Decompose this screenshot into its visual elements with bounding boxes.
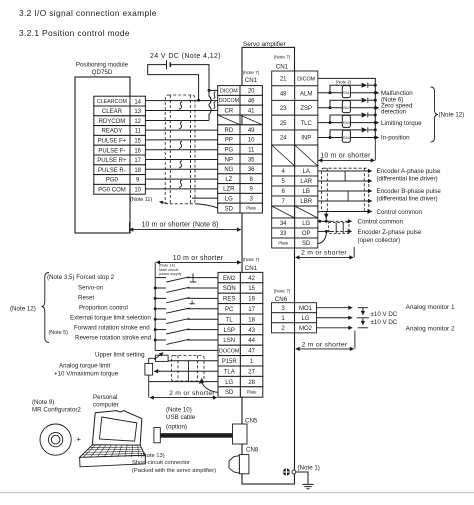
svg-text:EM2: EM2: [223, 276, 236, 282]
CN1 lower pin LG 28: [218, 376, 240, 386]
wire PG0 COM to LZR: [145, 188, 217, 190]
module pin PG0 9: [94, 175, 130, 185]
wire PULSE R+ to NP: [145, 159, 217, 161]
svg-text:PULSE F-: PULSE F-: [98, 148, 125, 154]
junction dots ZSP: [329, 106, 332, 109]
junction battery minus / DOCOM: [197, 99, 200, 102]
USB plug: [154, 428, 160, 443]
svg-text:10: 10: [134, 187, 141, 193]
svg-text:LSN: LSN: [223, 338, 235, 344]
svg-text:(Note 7): (Note 7): [274, 289, 291, 294]
svg-text:(Note 11): (Note 11): [130, 197, 152, 203]
module pin RDYCOM 12: [94, 116, 130, 126]
CN1 right: skipped pins (diagonal): [272, 206, 295, 218]
twisted pair squiggle: [179, 102, 182, 110]
svg-text:PULSE R+: PULSE R+: [97, 158, 127, 164]
flyback diode branch INP: [330, 130, 361, 138]
svg-text:35: 35: [248, 157, 255, 163]
wire to DICOM cell: [209, 89, 218, 91]
module pin PG0 COM 10: [94, 184, 130, 194]
laptop icon: [92, 411, 142, 446]
wire CN6 row 3: [317, 327, 353, 329]
svg-text:13: 13: [134, 109, 141, 115]
CN1 lower pin LSN 44: [218, 335, 240, 345]
svg-text:SD: SD: [225, 390, 234, 396]
svg-text:Analog monitor 1: Analog monitor 1: [406, 304, 456, 311]
flyback diode branch TLC: [330, 115, 361, 123]
svg-text:Servo amplifier: Servo amplifier: [243, 41, 286, 48]
pair bar P15R/TLA: [188, 361, 190, 382]
svg-text:16: 16: [134, 148, 141, 154]
svg-text:External torque limit selectio: External torque limit selection: [70, 314, 151, 321]
module pin PULSE R- 18: [94, 165, 130, 175]
wire shield to SD plate: [195, 204, 218, 208]
positioning module QD75D box: [75, 77, 130, 233]
vertical pot feed: [148, 358, 150, 381]
svg-text:LG: LG: [225, 380, 233, 386]
svg-text:DICOM: DICOM: [220, 88, 238, 94]
earth ground symbol: [302, 483, 313, 485]
svg-text:LZ: LZ: [225, 177, 232, 183]
terminal circle on box edge: [292, 470, 296, 474]
wire CLEAR to CR: [145, 110, 217, 112]
CN1 lower pin PC 17: [218, 304, 240, 314]
svg-text:RA4: RA4: [343, 136, 350, 140]
CN1 lower pin P15R 1: [218, 356, 240, 366]
svg-text:Encoder Z-phase pulse: Encoder Z-phase pulse: [358, 229, 423, 236]
svg-text:±10 V DC: ±10 V DC: [371, 319, 398, 326]
svg-text:LG: LG: [302, 221, 310, 227]
svg-text:10: 10: [248, 138, 255, 144]
twisted pair squiggle: [179, 122, 182, 129]
svg-text:27: 27: [248, 369, 255, 375]
TLA wiper arrow: [154, 370, 160, 372]
svg-text:+: +: [77, 435, 82, 444]
wire encoder LBR: [318, 200, 372, 202]
CN1 right pin 4 LA: [272, 166, 295, 176]
junction dots INP: [329, 136, 332, 139]
CN1 middle: skipped pins (diagonal): [218, 115, 240, 125]
wire READY to RD: [145, 129, 217, 131]
svg-text:CN5: CN5: [245, 417, 258, 424]
junction bus/SON: [154, 287, 157, 290]
svg-text:power supply: power supply: [159, 272, 181, 276]
CN1 right pin 21 DICOM: [272, 71, 295, 86]
output arrow INP: [375, 137, 378, 139]
pair bar LA/LAR: [344, 171, 346, 181]
svg-text:Proportion control: Proportion control: [79, 304, 128, 311]
svg-text:10 m or shorter: 10 m or shorter: [173, 255, 224, 262]
svg-text:43: 43: [248, 328, 255, 334]
svg-text:PP: PP: [225, 138, 233, 144]
svg-text:RDYCOM: RDYCOM: [99, 119, 126, 125]
svg-text:+10 V/maximum torque: +10 V/maximum torque: [54, 371, 119, 378]
svg-text:34: 34: [280, 221, 287, 227]
wire CN6 row 1: [317, 307, 353, 309]
CN1 lower pin EM2 42: [218, 272, 240, 282]
svg-text:25: 25: [280, 121, 287, 127]
servo box edge visible through middle diag cell: [241, 116, 243, 125]
wire TLA: [159, 370, 219, 372]
twisted pair squiggle DOCOM/CR: [214, 102, 216, 109]
CN1 right pin 6 LB: [272, 186, 295, 196]
CN6 pin 1 LG: [272, 313, 295, 323]
svg-text:19: 19: [248, 297, 255, 303]
wire DICOM(21) to +24V bus: [318, 78, 376, 137]
CN5 connector: [233, 424, 248, 444]
USB cable (thick): [160, 433, 232, 438]
diode TLC: [362, 112, 368, 117]
svg-text:(Note 7): (Note 7): [274, 55, 291, 60]
wire LG(34) control common: [318, 220, 331, 222]
svg-text:23: 23: [280, 106, 287, 112]
CN1 lower pin SD Plate: [218, 387, 240, 397]
wire P15R: [168, 360, 218, 362]
svg-text:(Note 7): (Note 7): [243, 70, 260, 75]
svg-text:SD: SD: [302, 241, 311, 247]
junction bus/RES: [154, 297, 157, 300]
CN1 middle pin DICOM 20: [218, 86, 240, 96]
svg-text:Plate: Plate: [246, 206, 257, 211]
switch for TL: [155, 318, 166, 320]
svg-text:2 m or shorter: 2 m or shorter: [169, 390, 215, 397]
svg-text:3.2.1 Position control mode: 3.2.1 Position control mode: [19, 28, 130, 38]
svg-text:PC: PC: [225, 307, 234, 313]
svg-text:PULSE F+: PULSE F+: [98, 138, 127, 144]
CN6 pin 2 MO2: [272, 323, 295, 333]
svg-text:DOCOM: DOCOM: [219, 348, 239, 354]
svg-text:(Note 12): (Note 12): [10, 305, 36, 312]
junction bus/LSP: [154, 328, 157, 331]
CN1 lower pin DOCOM 47: [218, 345, 240, 355]
junction dots TLC: [329, 121, 332, 124]
CN1 middle pin CR 41: [218, 105, 240, 115]
CN1 middle pin PG 11: [218, 144, 240, 154]
svg-text:LB: LB: [303, 189, 310, 195]
ground wire: [296, 472, 308, 484]
CN6 pin 3 MO1: [272, 303, 295, 313]
shield: Z-phase small dashed box: [329, 223, 349, 234]
switch for RES: [155, 297, 166, 299]
svg-text:48: 48: [280, 91, 287, 97]
CN1 right pin 23 ZSP: [272, 100, 295, 115]
svg-text:Analog monitor 2: Analog monitor 2: [406, 325, 456, 332]
twisted pair squiggle: [179, 180, 182, 188]
flyback diode branch ZSP: [330, 100, 361, 108]
wire RDYCOM to +24V net: [145, 120, 209, 122]
svg-text:CLEAR: CLEAR: [102, 109, 123, 115]
svg-text:Control common: Control common: [358, 219, 404, 226]
svg-text:15: 15: [134, 138, 141, 144]
wire vertical RDYCOM to DICOM net (with hops): [209, 90, 211, 120]
CN8 connector: [239, 455, 249, 474]
wire LG(28): [149, 381, 218, 383]
module pin READY 11: [94, 126, 130, 136]
svg-text:(Note 1): (Note 1): [298, 464, 320, 471]
diode INP: [362, 127, 368, 132]
svg-text:RA1: RA1: [343, 91, 350, 95]
shield drop to LG(34): [325, 212, 327, 222]
wire PULSE R- to NG: [145, 168, 217, 170]
svg-text:21: 21: [280, 77, 287, 83]
svg-text:(Packed with the servo amplifi: (Packed with the servo amplifier): [132, 468, 216, 474]
wire encoder LAR: [318, 180, 372, 182]
svg-text:42: 42: [248, 276, 255, 282]
wire encoder LA: [318, 170, 372, 172]
svg-text:READY: READY: [102, 129, 123, 135]
wire CLEARCOM to DOCOM: [145, 100, 217, 102]
CN1 lower pin LSP 43: [218, 324, 240, 334]
output arrow TLC: [375, 122, 378, 124]
CN8 short-circuit plug: [229, 456, 239, 474]
CN1 lower pin TL 18: [218, 314, 240, 324]
CN1 right pin 25 TLC: [272, 115, 295, 130]
svg-text:RA2: RA2: [343, 106, 350, 110]
svg-text:(Note 2): (Note 2): [336, 80, 352, 85]
svg-text:SD: SD: [225, 206, 234, 212]
svg-text:Short-circuit connector: Short-circuit connector: [132, 460, 190, 466]
svg-text:Encoder A-phase pulse: Encoder A-phase pulse: [377, 168, 442, 175]
shield: analog cable dashed box: [172, 355, 205, 381]
junction battery plus / DICOM: [208, 89, 211, 92]
svg-text:(Note 10): (Note 10): [166, 407, 192, 414]
svg-text:INP: INP: [301, 136, 311, 142]
pair bar LB/LBR: [347, 191, 349, 201]
battery 24VDC: [166, 60, 168, 69]
svg-text:P15R: P15R: [222, 359, 238, 365]
brace (Note 12) left: [42, 273, 50, 343]
wire CN6 row 2: [317, 317, 353, 319]
svg-text:(Note 9): (Note 9): [32, 399, 54, 406]
svg-text:(differential line driver): (differential line driver): [377, 176, 438, 183]
svg-text:Upper limit setting: Upper limit setting: [95, 352, 145, 359]
svg-text:12: 12: [134, 119, 141, 125]
svg-text:TL: TL: [226, 317, 234, 323]
svg-text:10 m or shorter: 10 m or shorter: [320, 152, 371, 159]
relay coil RA1 for ALM: [342, 86, 350, 98]
brace (Note 12) right: [431, 87, 439, 142]
svg-text:44: 44: [248, 338, 255, 344]
svg-text:TLA: TLA: [224, 369, 235, 375]
svg-text:11: 11: [248, 147, 255, 153]
potentiometer P15R: [156, 355, 169, 361]
svg-text:PG: PG: [225, 147, 234, 153]
page footer rule: [0, 492, 474, 493]
svg-text:RA3: RA3: [343, 121, 350, 125]
wire battery minus: [148, 75, 199, 101]
analog meter symbols: [358, 307, 368, 309]
svg-text:11: 11: [135, 129, 142, 135]
svg-text:computer: computer: [93, 401, 119, 408]
svg-text:2 m or shorter: 2 m or shorter: [301, 249, 347, 256]
svg-text:Analog torque limit: Analog torque limit: [59, 362, 111, 369]
CN1 lower pin RES 19: [218, 293, 240, 303]
svg-text:(Note 3,5) Forced stop 2: (Note 3,5) Forced stop 2: [47, 274, 115, 281]
wire output INP: [318, 137, 343, 139]
protective earth terminal: [283, 469, 289, 475]
svg-text:ZSP: ZSP: [300, 106, 312, 112]
CN1 right pin Plate SD: [272, 238, 295, 248]
diode ZSP: [362, 98, 368, 103]
svg-text:24 V DC (Note 4,12): 24 V DC (Note 4,12): [150, 53, 221, 60]
svg-text:(differential line driver): (differential line driver): [377, 196, 438, 203]
svg-text:(Note 13): (Note 13): [141, 453, 165, 459]
svg-text:10 m or shorter (Note 8): 10 m or shorter (Note 8): [142, 222, 219, 229]
svg-text:RES: RES: [223, 297, 235, 303]
svg-text:MO2: MO2: [299, 326, 313, 332]
svg-text:TLC: TLC: [301, 121, 313, 127]
CN1 middle pin NG 36: [218, 164, 240, 174]
relay coil RA4 for INP: [342, 130, 350, 142]
twisted pair squiggle DICOM/DOCOM: [214, 92, 216, 99]
diode ALM: [362, 83, 368, 88]
shield: module cable dashed box: [165, 95, 195, 204]
CN1 right pin 24 INP: [272, 130, 295, 145]
svg-text:detection: detection: [381, 109, 407, 116]
svg-text:CLEARCOM: CLEARCOM: [97, 99, 127, 105]
switch for PC: [155, 308, 166, 310]
svg-text:LZR: LZR: [223, 187, 235, 193]
svg-text:PG0: PG0: [106, 178, 119, 184]
wire output TLC: [318, 122, 343, 124]
svg-text:47: 47: [248, 349, 255, 355]
wire shield to LG: [192, 197, 218, 199]
svg-text:MO1: MO1: [299, 306, 313, 312]
wire SD plate (analog shield): [202, 382, 219, 392]
svg-text:LSP: LSP: [224, 328, 235, 334]
input common bus: [154, 262, 156, 350]
potentiometer TLA (vertical): [145, 364, 153, 376]
CN1 middle pin DOCOM 46: [218, 95, 240, 105]
flyback diode branch ALM: [330, 85, 361, 93]
wire battery plus to DICOM: [148, 65, 167, 75]
CD-ROM icon: [40, 424, 71, 455]
CN1 middle pin RD 49: [218, 125, 240, 135]
svg-text:In-position: In-position: [381, 135, 410, 142]
twisted pair squiggle: [179, 141, 182, 148]
svg-text:CN1: CN1: [245, 77, 258, 84]
CN1 middle pin PP 10: [218, 135, 240, 145]
wire PULSE F+ to PP: [145, 139, 217, 141]
servo amplifier box: [242, 47, 295, 484]
svg-text:CN1: CN1: [276, 64, 289, 71]
svg-text:Reset: Reset: [78, 294, 94, 301]
wire PULSE F- to PG: [145, 149, 217, 151]
svg-text:DICOM: DICOM: [297, 76, 315, 82]
svg-text:Reverse rotation stroke end: Reverse rotation stroke end: [75, 335, 152, 342]
svg-text:MR Configurator2: MR Configurator2: [32, 406, 81, 413]
svg-text:15: 15: [248, 286, 255, 292]
svg-text:(open collector): (open collector): [358, 237, 401, 244]
svg-text:Plate: Plate: [247, 390, 258, 395]
svg-text:USB cable: USB cable: [166, 414, 196, 421]
switch for LSP: [155, 329, 166, 331]
junction bus/TL: [154, 318, 157, 321]
CN1 right pin 5 LAR: [272, 176, 295, 186]
CN1 middle pin LZR 9: [218, 184, 240, 194]
module pin PULSE F+ 15: [94, 135, 130, 145]
wire DOCOM(47): [155, 349, 218, 351]
junction dots ALM: [329, 91, 332, 94]
CN1 middle pin LG 3: [218, 193, 240, 203]
svg-text:NP: NP: [225, 157, 233, 163]
svg-text:PULSE R-: PULSE R-: [98, 168, 126, 174]
svg-text:Positioning module: Positioning module: [76, 62, 129, 69]
svg-text:(Note 5): (Note 5): [49, 330, 69, 336]
wire control common (shield): [318, 211, 372, 214]
laptop keys hatch: [83, 445, 95, 457]
EM2 NC contact marks: [192, 273, 194, 278]
svg-text:Servo-on: Servo-on: [78, 285, 104, 292]
CN1 right pin 48 ALM: [272, 86, 295, 101]
switch for SON: [155, 287, 166, 289]
CN1 right pin 7 LBR: [272, 196, 295, 206]
relay coil RA3 for TLC: [342, 115, 350, 127]
svg-text:Control common: Control common: [377, 209, 423, 216]
CN1 lower pin SON 15: [218, 283, 240, 293]
svg-text:Personal: Personal: [93, 394, 117, 401]
module pin PULSE F- 16: [94, 145, 130, 155]
CN1 middle pin LZ 8: [218, 174, 240, 184]
module pin CLEARCOM 14: [94, 96, 130, 106]
svg-text:(option): (option): [166, 424, 187, 431]
shield: encoder cable dashed box: [322, 168, 369, 211]
svg-text:QD75D: QD75D: [92, 69, 113, 76]
CN1 right: skipped pins (diagonal): [272, 145, 295, 166]
svg-text:41: 41: [248, 108, 255, 114]
svg-text:Encoder B-phase pulse: Encoder B-phase pulse: [377, 188, 442, 195]
switch for LSN: [155, 339, 166, 341]
svg-text:PG0 COM: PG0 COM: [98, 187, 126, 193]
svg-text:14: 14: [134, 99, 141, 105]
svg-text:3.2 I/O signal connection exam: 3.2 I/O signal connection example: [19, 8, 157, 18]
twisted pair squiggle: [179, 161, 182, 168]
svg-text:(Note 12): (Note 12): [439, 112, 465, 119]
module pin CLEAR 13: [94, 106, 130, 116]
CN1 middle pin SD Plate: [218, 203, 240, 213]
svg-text:DOCOM: DOCOM: [219, 98, 239, 104]
wire OP(33) encoder Z-phase: [318, 230, 331, 232]
svg-text:LG: LG: [225, 196, 233, 202]
svg-text:RD: RD: [225, 128, 234, 134]
svg-text:17: 17: [248, 307, 255, 313]
output arrow ALM: [375, 92, 378, 94]
svg-text:17: 17: [134, 158, 141, 164]
svg-text:Limiting torque: Limiting torque: [381, 120, 422, 127]
svg-text:28: 28: [248, 380, 255, 386]
svg-text:Forward rotation stroke end: Forward rotation stroke end: [74, 324, 150, 331]
svg-text:CR: CR: [225, 108, 234, 114]
svg-text:LA: LA: [303, 169, 310, 175]
wire SD plate to Z shield: [318, 232, 327, 243]
module pin PULSE R+ 17: [94, 155, 130, 165]
svg-text:LBR: LBR: [300, 199, 312, 205]
CN1 lower pin TLA 27: [218, 366, 240, 376]
svg-text:33: 33: [280, 231, 287, 237]
svg-text:OP: OP: [302, 231, 311, 237]
wire output ZSP: [318, 107, 343, 109]
svg-text:±10 V DC: ±10 V DC: [371, 311, 398, 318]
CN1 right pin 34 LG: [272, 218, 295, 228]
svg-text:(Note 7): (Note 7): [243, 257, 260, 262]
CN1 middle pin NP 35: [218, 154, 240, 164]
svg-text:2 m or shorter: 2 m or shorter: [302, 341, 348, 348]
svg-text:24: 24: [280, 136, 287, 142]
svg-text:LAR: LAR: [300, 179, 312, 185]
svg-text:LG: LG: [301, 316, 309, 322]
output arrow ZSP: [375, 107, 378, 109]
svg-text:CN6: CN6: [275, 296, 288, 303]
